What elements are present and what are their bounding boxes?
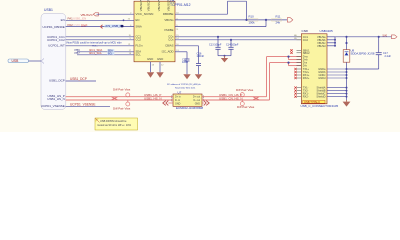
svg-text:USB1_EN: USB1_EN [73, 17, 86, 21]
svg-text:CN8: CN8 [302, 29, 308, 33]
svg-text:USB1_HS_N: USB1_HS_N [47, 97, 65, 101]
svg-text:I2C address of TCPP01 (I2C_ADD: I2C address of TCPP01 (I2C_ADD)-In [167, 83, 201, 86]
svg-text:GND: GND [195, 103, 201, 106]
svg-text:Diff Pair Vias: Diff Pair Vias [113, 106, 131, 110]
svg-text:VBUSC1: VBUSC1 [139, 0, 143, 11]
svg-text:USB1_DCP: USB1_DCP [70, 77, 87, 81]
svg-text:5V0: 5V0 [383, 34, 388, 38]
svg-text:USB_C_CONNECTOR4105: USB_C_CONNECTOR4105 [301, 104, 339, 108]
svg-text:EN: EN [61, 18, 65, 22]
svg-text:SCL: SCL [108, 53, 113, 56]
svg-text:USB DP/DM should be: USB DP/DM should be [100, 119, 127, 123]
svg-text:USB1_CN_HS_N: USB1_CN_HS_N [219, 96, 243, 100]
svg-text:24k: 24k [276, 21, 281, 25]
svg-text:Diff Pair Vias: Diff Pair Vias [236, 88, 254, 92]
svg-text:GNDd: GNDd [318, 76, 326, 80]
svg-text:SDDAJ5P50-JC/08: SDDAJ5P50-JC/08 [351, 52, 375, 56]
svg-text:routed as 90 ohm diff +/- 10%: routed as 90 ohm diff +/- 10% [97, 123, 132, 127]
svg-text:C13 100pF: C13 100pF [209, 44, 222, 47]
svg-text:R10: R10 [249, 15, 255, 19]
svg-text:D- in: D- in [175, 99, 181, 102]
svg-text:VBCNs: VBCNs [164, 18, 174, 22]
svg-text:VBUSC2: VBUSC2 [146, 0, 150, 11]
svg-text:I2C1_SCL: I2C1_SCL [89, 51, 102, 55]
svg-text:GND: GND [157, 57, 163, 61]
svg-text:D- out: D- out [193, 99, 200, 102]
svg-text:Vbus PD(9) could be internal p: Vbus PD(9) could be internal pull-up to … [66, 41, 122, 45]
svg-text:GND: GND [147, 57, 153, 61]
svg-text:11: 11 [176, 29, 178, 31]
svg-text:SWA: SWA [136, 25, 142, 29]
svg-text:PB7: PB7 [75, 51, 81, 55]
svg-text:Diff Pair Vias: Diff Pair Vias [237, 105, 255, 109]
svg-text:VSDBE: VSDBE [164, 28, 174, 32]
svg-text:100n: 100n [182, 60, 188, 64]
svg-text:USB1_DCP: USB1_DCP [49, 78, 65, 82]
svg-text:UCPD1_CC2: UCPD1_CC2 [47, 38, 65, 42]
svg-text:USB: USB [12, 59, 20, 63]
svg-text:EN: EN [136, 18, 140, 22]
svg-text:ECMF02-4CMX8M8: ECMF02-4CMX8M8 [176, 106, 203, 110]
svg-text:VCC_NCWN: VCC_NCWN [136, 12, 154, 16]
svg-text:2.2uF: 2.2uF [385, 55, 392, 58]
svg-text:DNP: DNP [81, 23, 87, 27]
svg-text:I2C_ADD: I2C_ADD [162, 50, 174, 54]
svg-text:CC2: CC2 [303, 38, 309, 42]
svg-text:SBU2: SBU2 [303, 51, 310, 55]
svg-text:CC2: CC2 [136, 38, 142, 42]
svg-text:GND: GND [175, 103, 181, 106]
svg-text:D-b: D-b [303, 64, 308, 68]
svg-text:100nF: 100nF [197, 54, 205, 58]
svg-text:ShieldD: ShieldD [316, 95, 325, 99]
svg-text:VBUSS1: VBUSS1 [157, 0, 161, 11]
svg-text:USB1: USB1 [44, 8, 53, 12]
svg-text:TCPP01-M12: TCPP01-M12 [170, 3, 191, 7]
svg-text:C17: C17 [383, 51, 388, 55]
svg-text:USB1_HS_N: USB1_HS_N [144, 96, 162, 100]
svg-text:R11: R11 [276, 15, 281, 19]
svg-text:100k: 100k [249, 21, 256, 25]
svg-text:SCL: SCL [136, 53, 142, 57]
svg-text:USB4105: USB4105 [320, 29, 334, 33]
svg-text:CCs: CCs [168, 38, 174, 42]
svg-text:VBUSS2: VBUSS2 [166, 0, 170, 11]
svg-text:UCPD1_VSENSE: UCPD1_VSENSE [41, 104, 65, 108]
svg-text:C14 100pF: C14 100pF [226, 44, 239, 47]
svg-text:RX2-: RX2- [303, 95, 309, 99]
svg-text:Read 0x50, Write 0x51: Read 0x50, Write 0x51 [175, 87, 196, 90]
svg-text:Diff Pair Vias: Diff Pair Vias [113, 88, 131, 92]
svg-text:U7: U7 [178, 90, 182, 94]
svg-text:CBIAS: CBIAS [165, 44, 174, 48]
svg-text:FLGn: FLGn [136, 44, 143, 48]
svg-text:RX2+: RX2+ [303, 76, 310, 80]
svg-text:VBUSd: VBUSd [317, 44, 326, 48]
svg-text:DBDBE: DBDBE [163, 12, 174, 16]
svg-text:UCPD1_VSENSE: UCPD1_VSENSE [70, 103, 96, 107]
svg-text:UCPD1_INT: UCPD1_INT [48, 44, 65, 48]
svg-text:UCPD1_DBNDE: UCPD1_DBNDE [42, 25, 64, 29]
